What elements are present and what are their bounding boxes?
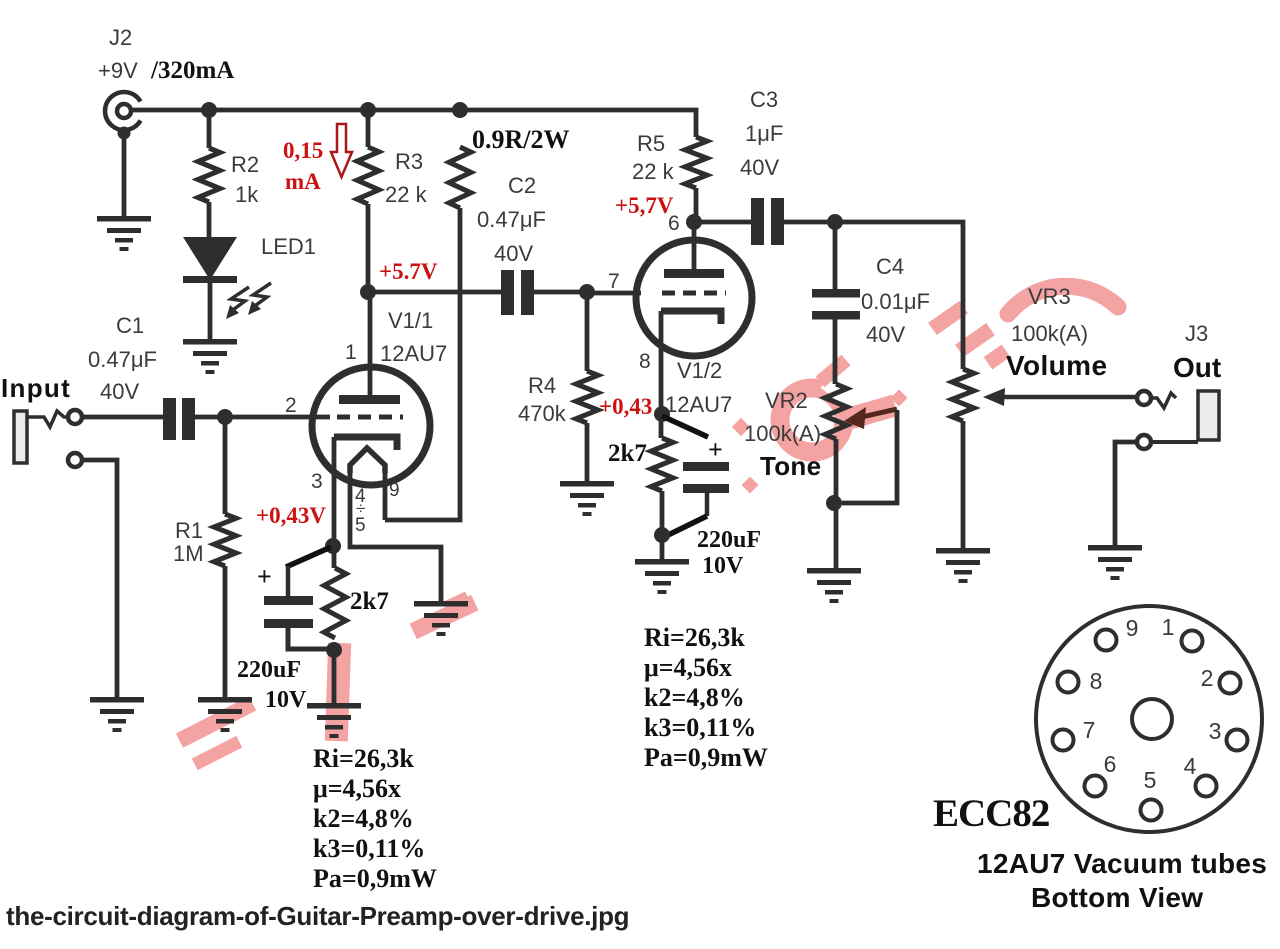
svg-text:2: 2 xyxy=(285,394,297,417)
svg-text:+: + xyxy=(708,435,723,464)
resistor 2k7 stage1 xyxy=(324,568,346,638)
svg-text:220uF: 220uF xyxy=(237,657,301,683)
hand wire cap1 to cathode xyxy=(286,547,331,567)
svg-text:0.47μF: 0.47μF xyxy=(88,347,157,372)
ground cathode1 xyxy=(307,703,361,709)
ground LED xyxy=(183,339,237,345)
connector J2 sleeve dot xyxy=(118,127,131,140)
wire J2 to ground xyxy=(122,139,127,216)
jack sleeve contact xyxy=(68,453,82,467)
svg-text:0,15: 0,15 xyxy=(283,138,323,163)
svg-text:0.47μF: 0.47μF xyxy=(477,207,546,232)
svg-text:9: 9 xyxy=(389,480,400,501)
svg-text:1: 1 xyxy=(345,341,357,364)
socket pin 4 hole xyxy=(1196,776,1217,797)
svg-text:ECC82: ECC82 xyxy=(933,792,1049,835)
hand wire cathode2 to cap2 xyxy=(662,416,708,437)
svg-text:40V: 40V xyxy=(494,241,533,266)
svg-text:9: 9 xyxy=(1126,615,1139,641)
wire cap1 top lead xyxy=(286,566,291,596)
node cathode2 xyxy=(654,406,670,422)
ground input xyxy=(90,697,144,703)
svg-text:+5,7V: +5,7V xyxy=(615,193,674,218)
potentiometer VR3 xyxy=(952,369,974,421)
wire node to C2 xyxy=(368,290,501,295)
svg-text:k2=4,8%: k2=4,8% xyxy=(644,683,745,712)
wire 0.9R down to heater xyxy=(385,208,460,520)
svg-text:12AU7: 12AU7 xyxy=(380,341,447,366)
wire LED to ground xyxy=(208,283,213,339)
svg-text:2: 2 xyxy=(1201,665,1214,691)
wire C4 to VR2 xyxy=(833,319,838,384)
svg-text:C4: C4 xyxy=(876,254,904,279)
node top rail C xyxy=(452,102,468,118)
svg-text:mA: mA xyxy=(285,169,321,194)
svg-text:J3: J3 xyxy=(1185,321,1208,346)
node cathode1 bottom xyxy=(326,642,342,658)
jack J3 sleeve contact xyxy=(1137,435,1151,449)
svg-text:1k: 1k xyxy=(235,182,259,207)
wire R1 to ground xyxy=(223,566,228,697)
svg-text:1μF: 1μF xyxy=(745,121,783,146)
svg-text:470k: 470k xyxy=(518,401,567,426)
VR2 wiper arrow xyxy=(862,409,897,417)
svg-text:VR3: VR3 xyxy=(1028,284,1071,309)
svg-text:Out: Out xyxy=(1173,352,1221,383)
tube V1/1 heater xyxy=(350,448,385,473)
ground VR2 xyxy=(807,568,861,574)
svg-text:the-circuit-diagram-of-Guitar-: the-circuit-diagram-of-Guitar-Preamp-ove… xyxy=(6,901,629,931)
ground heater xyxy=(414,601,468,607)
wire R3 top xyxy=(366,110,371,147)
resistor R1 xyxy=(214,514,236,566)
wire plate2 lead xyxy=(692,222,697,269)
svg-text:C3: C3 xyxy=(750,87,778,112)
capacitor C4 xyxy=(812,289,860,298)
connector J2 outer ring xyxy=(105,92,140,130)
wire 2k7 stage2 bottom xyxy=(660,491,665,559)
capacitor C2 xyxy=(501,270,514,315)
red current arrow xyxy=(331,124,352,177)
wire node2 to R4 xyxy=(585,292,590,371)
watermark pink square f3 xyxy=(891,390,908,407)
svg-text:V1/2: V1/2 xyxy=(677,358,722,383)
svg-text:2k7: 2k7 xyxy=(608,440,647,467)
node top rail A xyxy=(201,102,217,118)
svg-text:Ri=26,3k: Ri=26,3k xyxy=(644,623,745,652)
tube V1/1 plate bar xyxy=(339,395,400,404)
tube V1/1 cathode xyxy=(334,437,397,450)
node plate2 xyxy=(686,214,702,230)
wire J3 sleeve to ground xyxy=(1115,442,1137,545)
wire node to R1 xyxy=(223,417,228,514)
svg-text:3: 3 xyxy=(1209,718,1222,744)
jack J3 body xyxy=(1198,391,1219,440)
svg-text:8: 8 xyxy=(1090,668,1103,694)
watermark pink bar d xyxy=(815,355,850,388)
svg-text:22 k: 22 k xyxy=(385,182,428,207)
ground R1 xyxy=(198,697,252,703)
socket center hole xyxy=(1132,699,1172,739)
svg-text:C2: C2 xyxy=(508,173,536,198)
watermark pink bar g1 xyxy=(928,301,968,335)
socket pin 6 hole xyxy=(1085,776,1106,797)
wire C2 to node2 xyxy=(534,290,587,295)
node C3 out xyxy=(827,214,843,230)
socket pin 2 hole xyxy=(1220,673,1241,694)
svg-text:5: 5 xyxy=(355,515,366,536)
jack J1 body xyxy=(14,411,27,463)
LED light arrow 2 xyxy=(252,283,271,308)
wire pin3 down xyxy=(332,437,337,568)
svg-text:6: 6 xyxy=(668,212,680,235)
ground VR3 xyxy=(936,548,990,554)
hand wire cap2 to node xyxy=(664,516,707,537)
svg-text:R5: R5 xyxy=(637,131,665,156)
wire cathode1 to ground xyxy=(332,650,337,703)
tube V1/2 envelope xyxy=(636,240,752,356)
watermark pink stroke a1 xyxy=(176,696,256,747)
ground J3 xyxy=(1088,545,1142,551)
wire node6 to C3 xyxy=(694,220,751,225)
svg-text:Pa=0,9mW: Pa=0,9mW xyxy=(644,743,768,772)
wire R3 bottom to node xyxy=(366,204,371,292)
resistor R4 xyxy=(576,371,598,423)
svg-text:R3: R3 xyxy=(395,149,423,174)
tube V1/2 cathode xyxy=(661,311,721,324)
socket pin 7 hole xyxy=(1053,730,1074,751)
svg-text:10V: 10V xyxy=(702,553,744,579)
svg-text:R1: R1 xyxy=(175,518,203,543)
svg-text:22 k: 22 k xyxy=(632,159,675,184)
svg-text:Input: Input xyxy=(1,373,71,403)
node VR2 bottom xyxy=(826,495,842,511)
svg-text:100k(A): 100k(A) xyxy=(744,421,821,446)
socket pin 9 hole xyxy=(1096,630,1117,651)
svg-text:R4: R4 xyxy=(528,373,556,398)
tube V1/2 plate bar xyxy=(664,269,724,278)
wire VR2 wiper loop xyxy=(842,410,897,503)
svg-text:12AU7: 12AU7 xyxy=(665,392,732,417)
tube V1/2 grid dashes xyxy=(662,291,726,296)
connector J2 inner circle xyxy=(117,104,131,118)
svg-text:10V: 10V xyxy=(265,687,307,713)
svg-text:R2: R2 xyxy=(231,152,259,177)
watermark pink stroke b xyxy=(325,643,351,742)
watermark pink letter C xyxy=(780,388,844,452)
svg-text:2k7: 2k7 xyxy=(350,588,389,615)
svg-text:Tone: Tone xyxy=(760,451,821,481)
svg-text:6: 6 xyxy=(1104,751,1117,777)
svg-text:VR2: VR2 xyxy=(765,388,808,413)
svg-text:100k(A): 100k(A) xyxy=(1011,321,1088,346)
watermark pink stroke c xyxy=(410,595,479,639)
svg-text:C1: C1 xyxy=(116,313,144,338)
wire grid2 to tube2 xyxy=(587,291,641,296)
watermark pink crescent xyxy=(1008,286,1118,314)
svg-text:Pa=0,9mW: Pa=0,9mW xyxy=(313,864,437,893)
svg-text:4: 4 xyxy=(1184,753,1197,779)
ground cathode2 xyxy=(635,559,689,565)
LED light arrow 1 xyxy=(230,287,249,312)
svg-text:+0,43V: +0,43V xyxy=(256,503,326,528)
jack J3 tip wiggle xyxy=(1151,393,1176,408)
watermark pink bar g2 xyxy=(955,323,995,357)
svg-text:+9V: +9V xyxy=(98,58,138,83)
svg-text:1M: 1M xyxy=(173,541,204,566)
jack J3 tip contact xyxy=(1137,391,1151,405)
svg-text:40V: 40V xyxy=(866,322,905,347)
resistor 2k7 stage2 xyxy=(651,438,673,491)
svg-text:7: 7 xyxy=(608,270,620,293)
svg-text:LED1: LED1 xyxy=(261,234,316,259)
svg-text:μ=4,56x: μ=4,56x xyxy=(644,653,732,682)
svg-text:/320mA: /320mA xyxy=(150,57,234,84)
potentiometer VR2 xyxy=(825,384,847,439)
svg-text:μ=4,56x: μ=4,56x xyxy=(313,774,401,803)
capacitor 220uF stage1 xyxy=(264,596,313,605)
wire R5 to node6 xyxy=(694,188,699,222)
wire heater left leg xyxy=(350,468,441,601)
node grid1 xyxy=(217,409,233,425)
wire VR3 to ground xyxy=(961,421,966,548)
wire heater right leg xyxy=(383,468,388,520)
node top rail B xyxy=(360,102,376,118)
wire R2 top xyxy=(207,110,212,148)
svg-text:12AU7 Vacuum tubes: 12AU7 Vacuum tubes xyxy=(977,848,1267,879)
svg-text:0.01μF: 0.01μF xyxy=(861,289,930,314)
svg-text:220uF: 220uF xyxy=(697,527,761,553)
node cathode1 xyxy=(325,538,341,554)
wire R2 to LED xyxy=(207,202,212,238)
tube V1/1 grid dashes xyxy=(337,415,403,420)
jack tip contact xyxy=(68,410,82,424)
wire R4 to ground xyxy=(585,423,590,481)
socket ECC82 outline xyxy=(1036,606,1262,832)
wire sleeve to ground xyxy=(82,460,117,697)
ground R4 xyxy=(560,481,614,487)
wire C3 to node xyxy=(784,222,963,369)
ground J2 xyxy=(97,216,151,222)
svg-text:Volume: Volume xyxy=(1006,350,1107,381)
wire tip to C1 xyxy=(82,415,163,420)
wire pin8 down xyxy=(659,311,664,438)
resistor R2 xyxy=(198,148,220,202)
resistor R5 xyxy=(685,137,707,188)
svg-text:k3=0,11%: k3=0,11% xyxy=(644,713,756,742)
LED LED1 cathode bar xyxy=(183,276,237,283)
watermark pink blob e xyxy=(846,395,898,429)
socket pin 5 hole xyxy=(1141,800,1162,821)
wire J3 sleeve to body xyxy=(1151,440,1198,444)
svg-text:7: 7 xyxy=(1083,717,1096,743)
capacitor 220uF stage2 xyxy=(683,462,729,471)
svg-text:+0,43: +0,43 xyxy=(599,394,652,419)
capacitor C1 xyxy=(163,398,176,440)
svg-text:40V: 40V xyxy=(740,155,779,180)
wire cap2 bottom lead xyxy=(705,493,710,516)
LED LED1 triangle xyxy=(183,237,237,280)
resistor R3 xyxy=(357,147,379,204)
svg-text:1: 1 xyxy=(1162,614,1175,640)
jack tip wiggle xyxy=(27,411,67,427)
svg-text:+: + xyxy=(257,562,272,591)
watermark pink bar g3 xyxy=(984,345,1011,370)
svg-text:3: 3 xyxy=(311,470,323,493)
socket pin 8 hole xyxy=(1058,672,1079,693)
svg-text:0.9R/2W: 0.9R/2W xyxy=(472,125,570,154)
node grid2 xyxy=(579,284,595,300)
VR3 wiper arrow xyxy=(983,388,1005,406)
resistor 0.9R/2W xyxy=(449,147,471,208)
svg-text:+5.7V: +5.7V xyxy=(379,259,438,284)
svg-text:Bottom View: Bottom View xyxy=(1031,882,1203,913)
wire node to C4 xyxy=(833,222,838,289)
svg-text:5: 5 xyxy=(1144,767,1157,793)
socket pin 3 hole xyxy=(1227,730,1248,751)
tube V1/1 envelope xyxy=(312,367,430,485)
svg-text:k2=4,8%: k2=4,8% xyxy=(313,804,414,833)
wire VR2 bottom xyxy=(834,439,839,568)
watermark pink square f2 xyxy=(742,477,759,494)
node +5.7V first stage xyxy=(360,284,376,300)
svg-text:8: 8 xyxy=(639,350,651,373)
wire top rail xyxy=(131,110,696,137)
watermark pink stroke a2 xyxy=(192,736,242,770)
wire cap1 bottom lead xyxy=(288,628,333,649)
svg-text:J2: J2 xyxy=(109,25,132,50)
svg-text:k3=0,11%: k3=0,11% xyxy=(313,834,425,863)
wire C1 to node xyxy=(195,415,225,420)
svg-text:V1/1: V1/1 xyxy=(388,308,433,333)
wire plate1 to node xyxy=(368,292,373,395)
svg-text:Ri=26,3k: Ri=26,3k xyxy=(313,744,414,773)
socket pin 1 hole xyxy=(1182,631,1203,652)
svg-text:40V: 40V xyxy=(100,379,139,404)
capacitor C3 xyxy=(751,198,764,245)
wire grid1 to tube xyxy=(225,415,330,420)
watermark pink square f1 xyxy=(732,418,750,436)
node cathode2 bottom xyxy=(654,527,670,543)
